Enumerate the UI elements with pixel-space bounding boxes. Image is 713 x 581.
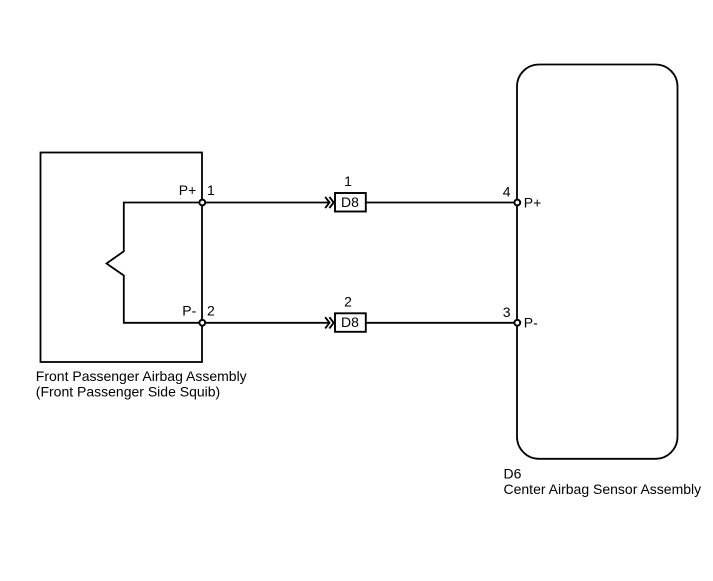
svg-text:P+: P+: [524, 194, 542, 210]
svg-text:P-: P-: [524, 315, 538, 331]
svg-text:P-: P-: [182, 302, 196, 318]
pin 2 terminal (airbag assembly): [199, 320, 205, 326]
Front Passenger Airbag Assembly box: [41, 153, 203, 363]
pin 1 terminal (airbag assembly): [199, 200, 205, 206]
svg-text:D6: D6: [504, 465, 522, 481]
svg-text:4: 4: [503, 184, 511, 200]
connector D8 no.2 box: [335, 313, 366, 332]
svg-text:1: 1: [344, 173, 352, 189]
connector arrow chevrons at D8 no.1: [325, 197, 334, 208]
wire pin 2 to connector D8 no.2: [205, 322, 329, 324]
svg-text:2: 2: [207, 302, 215, 318]
pin 3 terminal (sensor assembly): [514, 320, 520, 326]
svg-text:Front Passenger Airbag Assembl: Front Passenger Airbag Assembly: [36, 368, 247, 384]
Center Airbag Sensor Assembly box (D6): [517, 65, 678, 459]
svg-text:2: 2: [344, 294, 352, 310]
pin 4 terminal (sensor assembly): [514, 200, 520, 206]
connector arrow chevrons at D8 no.2: [325, 317, 334, 328]
svg-text:D8: D8: [341, 314, 359, 330]
wire pin 1 to connector D8 no.1: [205, 202, 329, 204]
svg-text:3: 3: [503, 304, 511, 320]
svg-text:1: 1: [207, 182, 215, 198]
svg-text:(Front Passenger Side Squib): (Front Passenger Side Squib): [36, 384, 220, 400]
wire connector D8 no.2 to pin 3: [366, 322, 515, 324]
wire connector D8 no.1 to pin 4: [366, 202, 515, 204]
squib element (internal zigzag wiring, Front Passenger Side Squib): [107, 203, 203, 323]
svg-text:D8: D8: [341, 194, 359, 210]
svg-text:P+: P+: [179, 182, 197, 198]
svg-text:Center Airbag Sensor Assembly: Center Airbag Sensor Assembly: [504, 481, 702, 497]
connector D8 no.1 box: [335, 193, 366, 212]
